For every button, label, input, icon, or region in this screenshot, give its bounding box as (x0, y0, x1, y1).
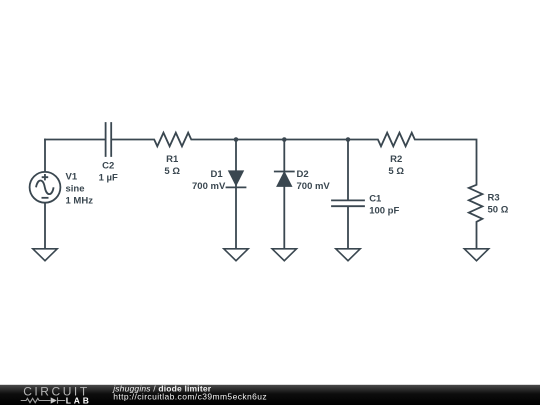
svg-text:sine: sine (66, 184, 85, 195)
svg-text:700 mV: 700 mV (297, 181, 331, 192)
svg-text:R1: R1 (166, 154, 179, 165)
svg-text:D2: D2 (297, 169, 309, 180)
svg-text:700 mV: 700 mV (192, 181, 226, 192)
svg-text:5 Ω: 5 Ω (164, 166, 180, 177)
svg-text:R2: R2 (390, 154, 402, 165)
svg-text:C1: C1 (369, 193, 382, 204)
svg-text:5 Ω: 5 Ω (388, 166, 404, 177)
svg-text:http://circuitlab.com/c39mm5ec: http://circuitlab.com/c39mm5eckn6uz (113, 391, 267, 401)
svg-text:50 Ω: 50 Ω (488, 205, 509, 216)
svg-text:100 pF: 100 pF (369, 205, 399, 216)
svg-text:D1: D1 (211, 169, 224, 180)
svg-text:C2: C2 (102, 161, 114, 172)
svg-text:V1: V1 (66, 171, 78, 182)
svg-text:R3: R3 (488, 193, 500, 204)
svg-text:1 µF: 1 µF (99, 173, 118, 184)
svg-text:LAB: LAB (66, 395, 92, 405)
svg-text:1 MHz: 1 MHz (66, 196, 94, 207)
